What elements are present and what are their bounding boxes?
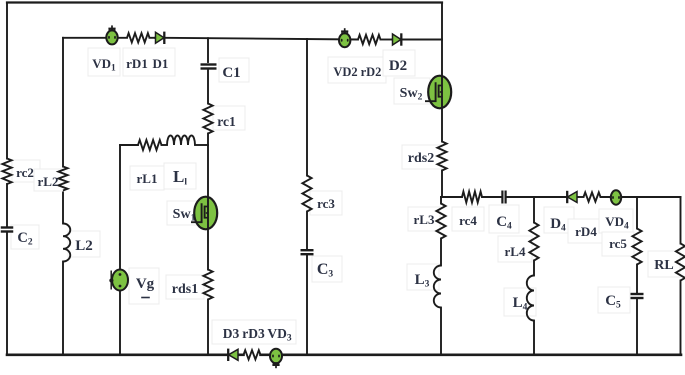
wire L1 to node [195,144,208,146]
resistor rL1 [138,140,162,150]
label box rL1 [130,166,164,190]
label box RL [648,251,680,277]
label rL4 [505,244,526,259]
svg-text:rL4: rL4 [505,244,526,259]
diode D1 [154,32,164,44]
svg-text:rD1: rD1 [126,56,148,71]
label VD2 [333,65,357,79]
label box rc3 [310,191,342,215]
svg-text:rds1: rds1 [172,282,198,297]
svg-text:rc1: rc1 [217,114,236,129]
wire rc3 branch upper [306,39,308,176]
label box C5 [598,287,630,313]
resistor rD2 [358,35,381,44]
wire rc5 branch top [636,197,638,229]
resistor rc5 [632,229,641,265]
label L1 [173,167,187,188]
resistor rD1 [127,33,150,42]
label box L4 [504,288,536,316]
label box D4 [544,207,574,233]
label D2 [389,58,407,74]
wire top border [7,1,442,3]
label box C3 [312,256,342,282]
svg-text:rc2: rc2 [16,165,34,180]
capacitor C5 [631,294,644,298]
label box L1 [164,163,196,189]
label box C1 [219,58,249,82]
label box rD1 D1 [123,48,175,76]
wire left border lower [6,233,8,355]
wire rD2-D2 gap [381,39,392,41]
wire rc4 to C4 [482,196,501,198]
wire rc3 to C3 [306,212,308,250]
label C3 [317,261,334,280]
label box VD2 rD2 [328,57,386,83]
label box rL4 [498,236,532,262]
capacitor C4 [502,191,505,204]
inductor L1 [167,136,195,146]
svg-text:D1: D1 [153,56,169,71]
svg-text:VD2: VD2 [333,65,357,79]
voltage sensor VD1 [106,25,117,44]
resistor rc4 [462,192,482,203]
label box L2 [68,231,100,257]
svg-text:rc5: rc5 [609,236,627,251]
resistor rc2 [2,159,11,185]
voltage sensor VD4 [611,190,621,204]
wire RL branch top [680,197,682,244]
label Vg minus [142,297,149,299]
diode D3 [228,349,239,361]
wire rc5 to C5 [636,265,638,293]
label box rL2 [34,169,64,191]
resistor rds1 [203,270,212,300]
wire right vertical from top [441,3,443,142]
label Sw2 [400,86,423,103]
resistor RL [676,244,685,281]
label box Sw1 [167,201,201,225]
wire rL4 branch top [533,197,535,223]
wire bottom rail right [282,353,681,356]
wire L3 to bottom [440,308,442,355]
label box D2 [383,50,415,76]
label box Vg [129,268,159,304]
label C4 [496,214,512,232]
svg-text:rL1: rL1 [137,171,158,186]
wire rds1 to bottom [207,300,209,355]
label box rc5 [602,232,634,256]
voltage sensor VD3 [270,349,282,368]
wire left inner vertical mid [62,191,64,224]
label rc5 [609,236,627,251]
wire left border upper [6,3,8,159]
svg-text:rD3: rD3 [242,326,265,341]
wire C5 to bottom [636,300,638,355]
resistor rD3 [244,350,261,359]
label box rc1 [213,106,245,130]
label Sw1 [173,207,196,224]
label rds1 [172,282,198,297]
svg-text:rD4: rD4 [575,224,597,239]
wire node to rc4 [441,196,462,198]
label box C4 [489,205,519,233]
svg-text:rds2: rds2 [408,151,434,166]
diode D4 [567,191,578,203]
wire left inner vertical lower [62,262,64,355]
label C2 [17,230,32,248]
label VD3 [267,326,292,344]
wire bottom rail left [7,353,228,356]
label RL [654,258,673,273]
label rc2 [16,165,34,180]
label VD1 [92,56,116,74]
wire D3 to rD3 gap [238,353,244,356]
label L3 [415,272,430,290]
label box rds2 [402,145,442,169]
mosfet switch Sw1 [191,197,217,230]
label rc4 [459,213,477,228]
label rL3 [414,212,435,227]
label rc1 [217,114,236,129]
label rD2 [361,65,382,79]
svg-text:rL2: rL2 [38,174,59,189]
label rD3 [242,326,265,341]
label box VD4 [599,209,633,233]
resistor rL3 [436,204,445,239]
wire L1 lead [162,144,168,146]
wire Vg branch vertical [119,146,121,355]
wire C1 top lead [207,38,209,62]
svg-text:D3: D3 [223,326,240,341]
wire RL to bottom [680,281,682,355]
label rD1 [126,56,148,71]
label box rD4 [568,219,604,243]
label rc3 [317,196,335,211]
diode D2 [391,33,401,45]
svg-text:RL: RL [654,258,673,273]
label D4 [550,216,566,234]
wire left inner vertical upper [62,38,64,167]
wire rD1-D1 gap [150,37,155,39]
svg-text:C1: C1 [222,65,240,81]
wire D1 to VD2 [166,38,359,40]
label L2 [75,238,93,254]
resistor rD4 [584,192,601,201]
label box Sw2 [394,78,430,104]
svg-text:Vg: Vg [136,276,155,292]
wire rL4 to L4 [533,261,535,276]
label box D3 rD3 VD3 [212,320,296,344]
label box rc2 [12,160,40,182]
wire rds2 to node [441,171,443,198]
label C5 [605,293,621,311]
wire top horizontal rail [63,37,127,39]
inductor L3 [434,266,441,308]
label box rds1 [166,275,204,299]
label VD4 [605,214,629,232]
wire left border mid [6,184,8,226]
wire rL3 to L3 [440,239,442,266]
svg-text:L2: L2 [75,238,93,254]
label L4 [513,295,528,313]
label rL2 [38,174,59,189]
label box rL3 [408,207,440,231]
label box C2 [11,225,39,249]
wire D4 to rD4 gap [578,196,584,198]
label D3 [223,326,240,341]
resistor rc3 [302,176,311,212]
resistor rc1 [203,104,212,134]
wire C3 to bottom [306,256,308,355]
voltage source Vg [109,270,128,291]
label box VD1 [88,48,120,76]
svg-text:rL3: rL3 [414,212,435,227]
resistor rds2 [437,142,446,171]
capacitor C1 [201,65,217,69]
svg-text:rc3: rc3 [317,196,335,211]
label rD4 [575,224,597,239]
capacitor C3 [301,250,314,254]
mosfet switch Sw2 [425,76,451,109]
wire node to rL3 [440,197,442,204]
resistor rL4 [529,223,538,261]
label rL1 [137,171,158,186]
resistor rL2 [58,167,67,191]
inductor L4 [527,276,534,321]
label box L3 [407,264,439,290]
wire C4 to D4 [507,196,567,198]
label box rc4 [452,207,484,231]
inductor L2 [63,224,70,262]
capacitor C2 [1,228,14,232]
svg-text:rc4: rc4 [459,213,477,228]
label C1 [222,65,240,81]
wire rD3 to VD3 [261,353,271,356]
svg-text:rD2: rD2 [361,65,382,79]
label rds2 [408,151,434,166]
wire L4 to bottom [533,321,535,355]
wire rD4 to right corner [601,196,681,198]
svg-text:D2: D2 [389,58,407,74]
wire rL1 lead [120,144,138,146]
label D1 [153,56,169,71]
wire D2 to right corner [403,39,443,41]
label Vg [136,276,155,292]
wire C1 to rc1 [207,71,209,104]
wire rc1 to Sw1 [207,134,209,270]
voltage sensor VD2 [339,28,350,47]
